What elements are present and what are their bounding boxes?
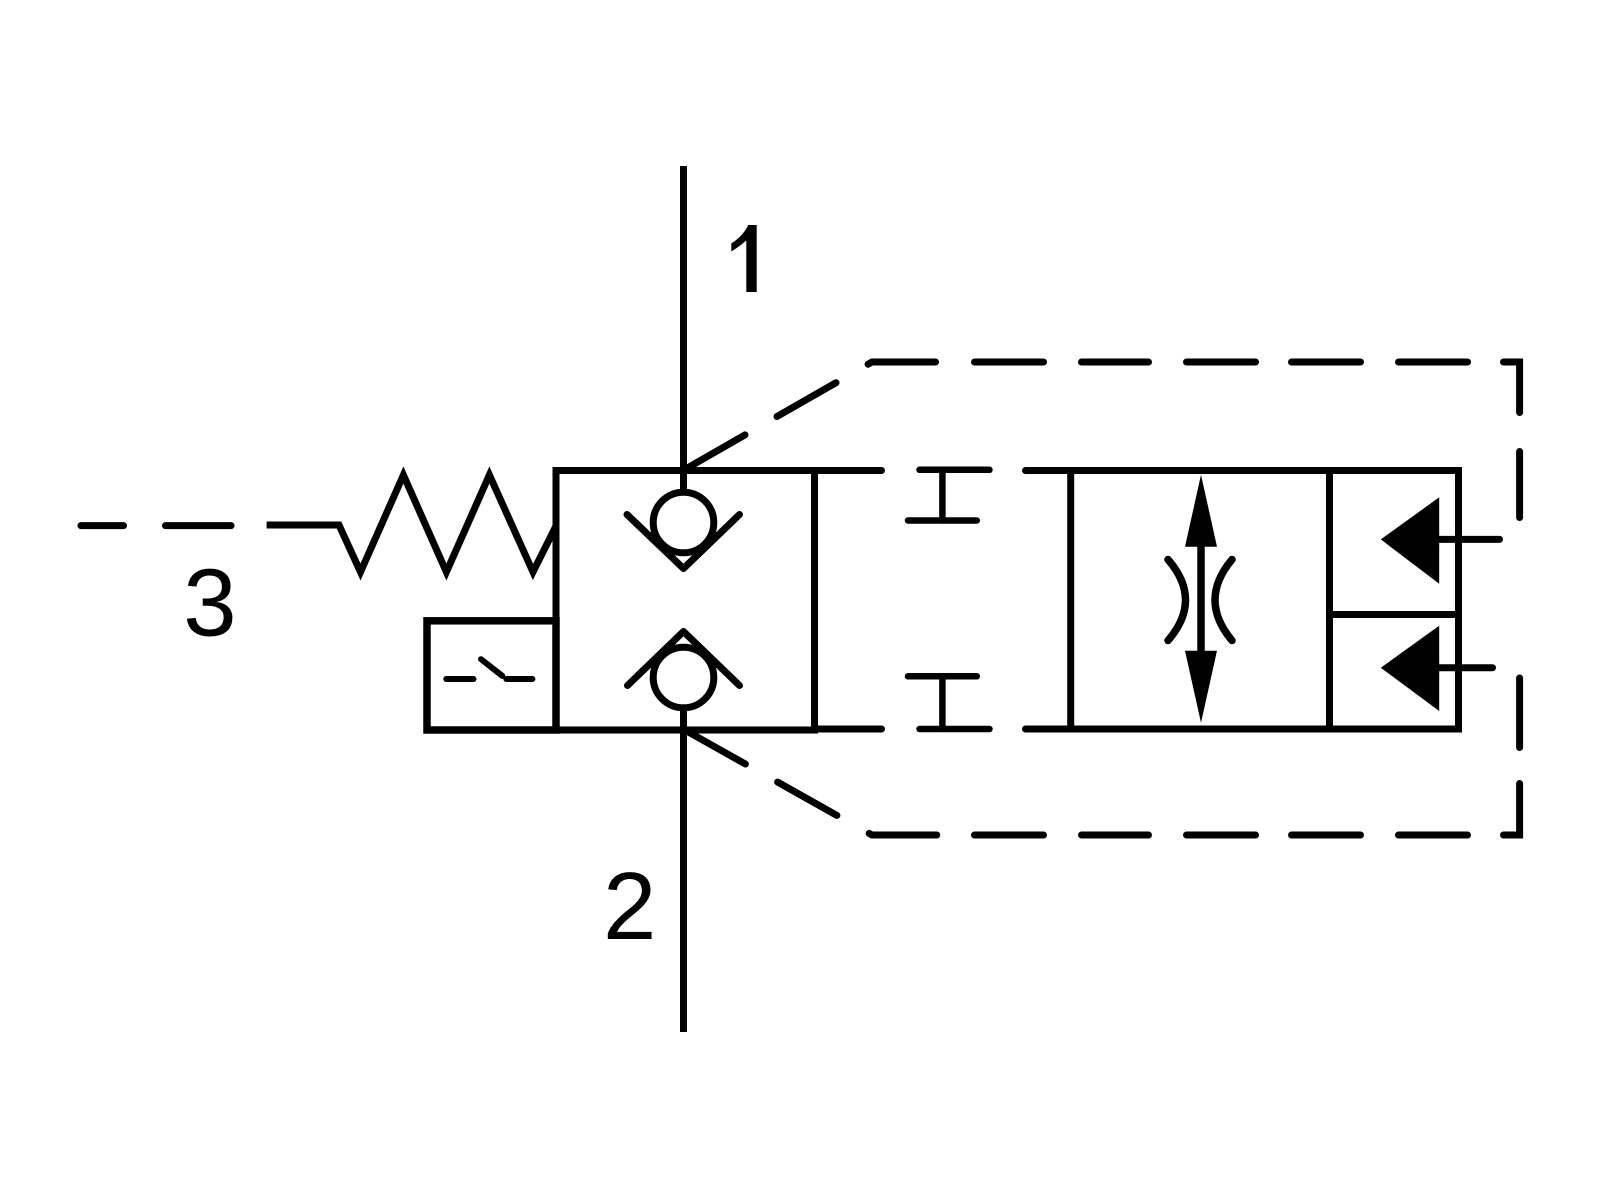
spring (267, 475, 556, 572)
port 1 line (680, 166, 687, 493)
lower check valve seat (628, 632, 740, 686)
upper check valve circle (653, 492, 714, 553)
pilot cap top (908, 470, 990, 521)
pilot line bottom (cap to flow box) (1026, 726, 1071, 733)
flow control box (1071, 471, 1330, 730)
check valve stub upper (1439, 536, 1500, 543)
dashed enclosure bottom diagonal (683, 729, 937, 835)
label 1 (731, 225, 756, 292)
flow control arrowhead down (1185, 651, 1217, 723)
switch box (427, 621, 556, 730)
check valve triangle lower (1381, 626, 1439, 711)
pilot line bottom (box to cap) (815, 726, 882, 733)
port 2 line (680, 709, 687, 1032)
port 3 dashed line (81, 522, 231, 529)
check valve box divider (1330, 611, 1459, 618)
restrictor arc left (1168, 560, 1186, 641)
dashed enclosure top right corner (1504, 362, 1520, 413)
dashed enclosure bottom right corner (1504, 784, 1520, 836)
main valve body (556, 471, 815, 731)
pilot cap bottom (908, 676, 990, 729)
svg-text:3: 3 (183, 550, 236, 657)
check valve triangle upper (1381, 497, 1439, 583)
pilot line top (box to cap) (815, 467, 882, 474)
dashed enclosure bottom edge (975, 832, 1468, 839)
lower check valve circle (653, 647, 714, 708)
check valve stub lower (1439, 664, 1493, 671)
upper check valve seat (627, 515, 740, 569)
switch symbol (446, 659, 532, 679)
dashed enclosure top edge (975, 359, 1468, 366)
flow control arrowhead up (1185, 475, 1217, 547)
svg-text:2: 2 (603, 853, 656, 960)
dashed enclosure right edge (1516, 452, 1523, 748)
dashed enclosure top diagonal (683, 362, 936, 471)
flow control arrow shaft (1197, 542, 1205, 655)
pilot line top (cap to flow box) (1026, 467, 1071, 474)
check valve box (1330, 471, 1459, 730)
restrictor arc right (1215, 560, 1232, 641)
